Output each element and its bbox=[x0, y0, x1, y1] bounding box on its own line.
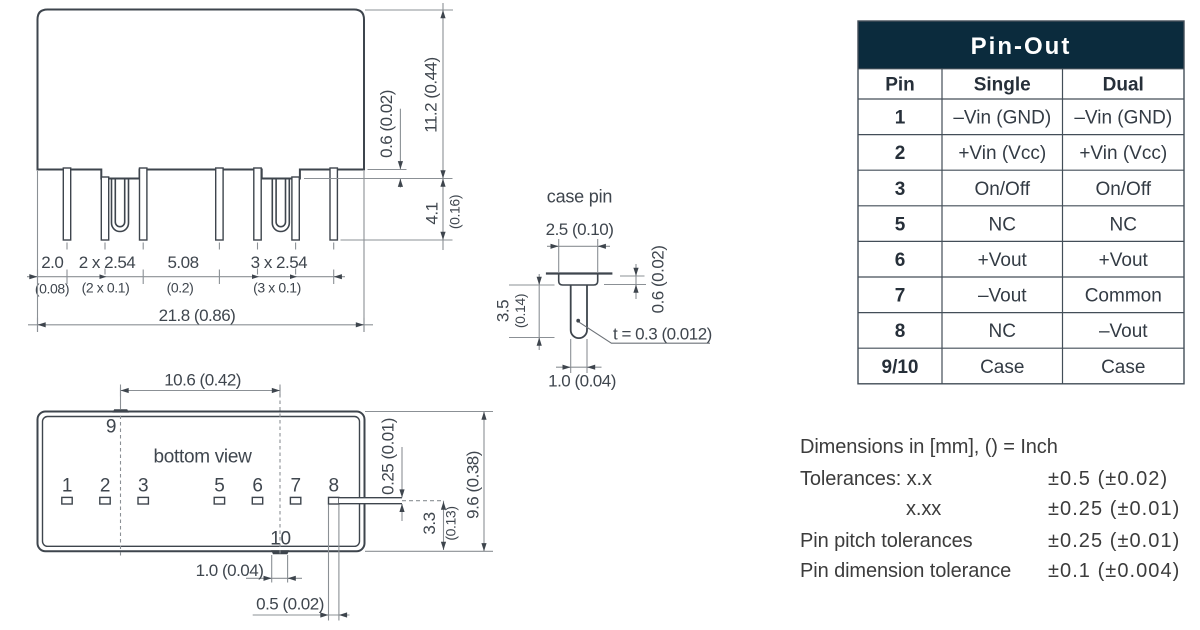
side view pin 7 lead bbox=[292, 177, 299, 240]
svg-text:2.0: 2.0 bbox=[41, 253, 63, 272]
svg-text:–Vout: –Vout bbox=[1099, 321, 1148, 342]
case pin width dimension 1.0 (0.04) bbox=[548, 339, 616, 391]
dimension label 2.0 bbox=[41, 253, 63, 272]
standoff dimension 0.6 (0.02) side view bbox=[368, 90, 407, 187]
svg-text:Tolerances: x.x: Tolerances: x.x bbox=[800, 468, 932, 490]
Pin-Out table grid bbox=[858, 21, 1184, 384]
bottom view pin 3 pad bbox=[138, 497, 148, 504]
svg-text:6: 6 bbox=[252, 476, 262, 497]
center line through pin 10 bbox=[279, 388, 281, 557]
svg-text:0.5 (0.02): 0.5 (0.02) bbox=[256, 595, 324, 614]
bottom view pin 6 number bbox=[252, 476, 262, 497]
svg-text:3: 3 bbox=[138, 476, 148, 497]
table row pin 9/10 bbox=[882, 357, 1146, 378]
bottom view pin 7 number bbox=[290, 476, 300, 497]
svg-text:11.2 (0.44): 11.2 (0.44) bbox=[422, 57, 441, 132]
table row pin 7 bbox=[895, 286, 1162, 307]
svg-text:1.0 (0.04): 1.0 (0.04) bbox=[548, 372, 616, 391]
svg-text:(0.08): (0.08) bbox=[35, 281, 69, 297]
svg-text:21.8 (0.86): 21.8 (0.86) bbox=[159, 306, 236, 325]
Pin-Out table header bbox=[858, 21, 1184, 69]
svg-text:+Vin (Vcc): +Vin (Vcc) bbox=[958, 143, 1046, 164]
tab spacing dimension 10.6 (0.42) bbox=[121, 371, 281, 397]
side view pin 3 lead bbox=[140, 168, 147, 240]
svg-text:+Vout: +Vout bbox=[1099, 250, 1149, 271]
svg-text:NC: NC bbox=[989, 321, 1016, 342]
svg-text:±0.1 (±0.004): ±0.1 (±0.004) bbox=[1048, 560, 1180, 582]
center line through pin 9 bbox=[120, 388, 122, 559]
svg-text:Common: Common bbox=[1085, 286, 1162, 307]
svg-text:Dual: Dual bbox=[1103, 75, 1144, 96]
table row pin 6 bbox=[895, 250, 1149, 271]
svg-text:1: 1 bbox=[895, 108, 906, 129]
svg-text:+Vin (Vcc): +Vin (Vcc) bbox=[1079, 143, 1167, 164]
case pin flange bbox=[559, 274, 598, 286]
svg-text:On/Off: On/Off bbox=[974, 179, 1030, 200]
case pin length dimension 3.5 (0.14) bbox=[494, 274, 555, 350]
label 9 bbox=[106, 417, 116, 438]
dimension label (2 x 0.1) bbox=[82, 279, 130, 295]
svg-text:0.25 (0.01): 0.25 (0.01) bbox=[378, 418, 397, 495]
side view pin 5 lead bbox=[216, 168, 223, 240]
svg-text:Pin pitch tolerances: Pin pitch tolerances bbox=[800, 530, 973, 552]
svg-text:Pin-Out: Pin-Out bbox=[971, 33, 1072, 60]
bottom view title bbox=[153, 446, 252, 467]
dimension label 2 x 2.54 bbox=[79, 253, 136, 272]
svg-text:8: 8 bbox=[895, 321, 906, 342]
svg-text:Pin: Pin bbox=[885, 75, 915, 96]
svg-text:3.5: 3.5 bbox=[494, 300, 513, 322]
svg-text:7: 7 bbox=[895, 286, 906, 307]
svg-text:3: 3 bbox=[895, 179, 906, 200]
svg-text:case pin: case pin bbox=[547, 187, 612, 207]
bottom view inner case wall bbox=[43, 417, 360, 547]
svg-text:10.6 (0.42): 10.6 (0.42) bbox=[164, 371, 241, 390]
svg-text:9.6 (0.38): 9.6 (0.38) bbox=[463, 451, 482, 519]
bottom view outer case outline bbox=[38, 412, 365, 552]
case tab pin 10 bbox=[271, 550, 289, 554]
svg-text:8: 8 bbox=[329, 476, 339, 497]
svg-text:3 x 2.54: 3 x 2.54 bbox=[251, 253, 308, 272]
height dimension 11.2 (0.44) bbox=[304, 3, 453, 250]
svg-text:±0.5 (±0.02): ±0.5 (±0.02) bbox=[1048, 468, 1168, 490]
table row pin 1 bbox=[895, 108, 1172, 129]
svg-text:(0.16): (0.16) bbox=[447, 195, 463, 229]
svg-text:1.0 (0.04): 1.0 (0.04) bbox=[196, 561, 264, 580]
svg-text:0.6 (0.02): 0.6 (0.02) bbox=[377, 90, 396, 158]
pin 8 side projection (0.25 thickness strip) bbox=[339, 498, 444, 504]
side view pin 1 lead bbox=[63, 168, 70, 240]
pin length dimension 4.1 (0.16) bbox=[341, 179, 463, 241]
pin pitch dimension line 2.0 / 2x2.54 / 5.08 / 3x2.54 bbox=[27, 269, 345, 285]
material thickness callout t = 0.3 (0.012) bbox=[576, 319, 712, 344]
note: pin pitch tolerances bbox=[800, 530, 1180, 552]
svg-text:x.xx: x.xx bbox=[906, 498, 941, 520]
svg-text:Dimensions in [mm], () = Inch: Dimensions in [mm], () = Inch bbox=[800, 436, 1058, 458]
svg-text:–Vout: –Vout bbox=[978, 286, 1027, 307]
bottom view pin 5 pad bbox=[214, 497, 224, 504]
svg-text:(2 x 0.1): (2 x 0.1) bbox=[82, 279, 130, 295]
overall width dimension 21.8 (0.86) bbox=[28, 171, 373, 332]
svg-text:–Vin (GND): –Vin (GND) bbox=[953, 108, 1051, 129]
svg-text:NC: NC bbox=[989, 214, 1016, 235]
svg-text:±0.25 (±0.01): ±0.25 (±0.01) bbox=[1048, 498, 1180, 520]
side view pin 8 lead bbox=[330, 168, 337, 240]
pad width dimension 0.5 (0.02) bbox=[253, 505, 350, 621]
pin thickness dimension 0.25 (0.01) bbox=[378, 418, 404, 521]
bottom view pin 1 number bbox=[62, 476, 72, 497]
svg-text:9/10: 9/10 bbox=[882, 357, 919, 378]
dimension label (0.2) bbox=[167, 279, 194, 295]
bottom view pin 3 number bbox=[138, 476, 148, 497]
svg-text:2: 2 bbox=[100, 476, 110, 497]
svg-text:(3 x 0.1): (3 x 0.1) bbox=[253, 279, 301, 295]
pin row offset dimension 3.3 (0.13) bbox=[420, 501, 459, 550]
svg-text:1: 1 bbox=[62, 476, 72, 497]
svg-text:0.6 (0.02): 0.6 (0.02) bbox=[648, 246, 667, 314]
label 10 bbox=[270, 529, 291, 550]
svg-text:5: 5 bbox=[895, 214, 906, 235]
svg-text:±0.25 (±0.01): ±0.25 (±0.01) bbox=[1048, 530, 1180, 552]
case tab pin 9 bbox=[112, 409, 129, 412]
side view: converter case body outline bbox=[38, 10, 365, 179]
note: pin dimension tolerance bbox=[800, 560, 1180, 582]
svg-text:4.1: 4.1 bbox=[423, 202, 442, 224]
side view pin 6 lead bbox=[254, 168, 261, 240]
svg-text:(0.13): (0.13) bbox=[443, 506, 459, 540]
side view pin 2 lead bbox=[101, 177, 108, 240]
svg-text:t = 0.3 (0.012): t = 0.3 (0.012) bbox=[613, 325, 712, 344]
table column headers bbox=[885, 75, 1144, 96]
table row pin 5 bbox=[895, 214, 1137, 235]
table row pin 3 bbox=[895, 179, 1152, 200]
svg-text:Case: Case bbox=[1101, 357, 1145, 378]
svg-text:Case: Case bbox=[980, 357, 1024, 378]
svg-text:(0.2): (0.2) bbox=[167, 279, 194, 295]
table row pin 2 bbox=[895, 143, 1167, 164]
bottom view pin 1 pad bbox=[62, 497, 72, 504]
svg-text:5: 5 bbox=[214, 476, 224, 497]
svg-text:5.08: 5.08 bbox=[167, 253, 198, 272]
svg-text:+Vout: +Vout bbox=[978, 250, 1028, 271]
bottom view pin 8 pad bbox=[329, 497, 339, 504]
svg-text:(0.14): (0.14) bbox=[512, 294, 528, 328]
svg-text:bottom view: bottom view bbox=[153, 446, 252, 467]
dimension label 5.08 bbox=[167, 253, 198, 272]
svg-text:2.5 (0.10): 2.5 (0.10) bbox=[546, 220, 614, 239]
svg-text:6: 6 bbox=[895, 250, 906, 271]
note: dimensions in mm bbox=[800, 436, 1058, 458]
extension ticks below pin tips bbox=[67, 243, 334, 250]
dimension label (0.08) bbox=[35, 281, 69, 297]
note: tolerances x.xx bbox=[906, 498, 1180, 520]
case surface line bbox=[546, 272, 613, 274]
svg-text:–Vin (GND): –Vin (GND) bbox=[1074, 108, 1172, 129]
svg-text:3.3: 3.3 bbox=[420, 512, 439, 534]
dimension label (3 x 0.1) bbox=[253, 279, 301, 295]
table row pin 8 bbox=[895, 321, 1149, 342]
tab width dimension 1.0 (0.04) bottom view bbox=[196, 555, 302, 583]
case pin detail title bbox=[547, 187, 612, 207]
svg-text:On/Off: On/Off bbox=[1095, 179, 1151, 200]
case pin shaft bbox=[571, 284, 587, 338]
case pin flange thickness dimension 0.6 (0.02) bbox=[604, 246, 667, 314]
svg-text:2 x 2.54: 2 x 2.54 bbox=[79, 253, 136, 272]
note: tolerances x.x bbox=[800, 468, 1168, 490]
case pin flange width dimension 2.5 (0.10) bbox=[546, 220, 614, 272]
side view case pin 10 (U-tab) bbox=[272, 178, 289, 232]
bottom view pin 6 pad bbox=[252, 497, 262, 504]
svg-text:Pin dimension tolerance: Pin dimension tolerance bbox=[800, 560, 1011, 582]
bottom view pin 2 pad bbox=[100, 497, 110, 504]
svg-text:7: 7 bbox=[290, 476, 300, 497]
svg-text:NC: NC bbox=[1110, 214, 1137, 235]
svg-text:Single: Single bbox=[974, 75, 1031, 96]
dimension label 3 x 2.54 bbox=[251, 253, 308, 272]
svg-text:9: 9 bbox=[106, 417, 116, 438]
case depth dimension 9.6 (0.38) bbox=[365, 412, 493, 552]
bottom view pin 2 number bbox=[100, 476, 110, 497]
bottom view pin 8 number bbox=[329, 476, 339, 497]
bottom view pin 7 pad bbox=[290, 497, 300, 504]
bottom view pin 5 number bbox=[214, 476, 224, 497]
svg-text:2: 2 bbox=[895, 143, 906, 164]
side view case pin 9 (U-tab) bbox=[112, 178, 129, 232]
